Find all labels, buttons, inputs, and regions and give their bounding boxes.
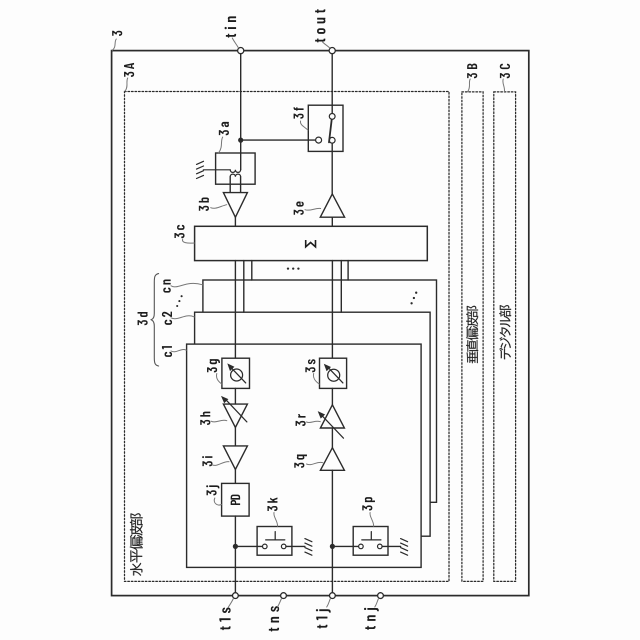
phase shifter 3g [222,358,250,388]
balun 3a secondary coil [230,174,240,177]
wire 3h to 3i [234,428,236,446]
wire 3q to terminal t1j [331,470,333,592]
label 3a [219,122,229,135]
terminal tin [238,48,244,54]
leader for label 3c [182,239,194,243]
variable amplifier 3h [223,404,247,427]
leader for label 3 [112,39,116,50]
label suichoku-henpa-bu (vertical Japanese text) [466,306,478,363]
label 3r [296,414,306,426]
terminal tout [329,48,335,54]
terminal tnj [378,593,384,599]
switch box 3f [308,105,343,151]
variable amplifier 3r (rx, points up) [320,405,344,428]
label tin [225,16,237,37]
label 3e [294,202,304,215]
wire 3i to 3j [234,469,236,483]
label t1s [219,607,230,630]
leader for label 3A [125,78,128,91]
leader for label 3s [313,374,319,385]
label 3i [202,456,212,466]
leader for label tns [277,599,281,608]
leader for label 3j [214,498,221,505]
label 3 [112,31,122,36]
leader for label 3g [217,374,222,385]
leader for label t1s [228,599,233,608]
leader for label 3f [300,121,307,130]
amplifier 3q (rx, points up) [320,448,344,471]
outer block box 3 [112,51,529,596]
sub-circuit box c1 (front card) [187,344,422,567]
label 3b [199,197,209,210]
wire 3r to 3q [331,428,333,448]
sub-circuit box cn (back card) [203,280,437,502]
terminal t1s [233,593,239,599]
label 3f [294,107,304,118]
sigma symbol [306,240,316,247]
label 3j [206,485,219,495]
label 3B [467,64,477,79]
leader for label 3q [307,462,323,464]
leader for label cn [171,283,203,286]
label tns [269,606,279,631]
label 3c [174,225,184,238]
ground for switch 3k [305,539,312,556]
leader for label c1 [171,350,186,352]
label 3C [500,64,510,79]
label cn [163,280,171,293]
dashed box 3C (digital section) [494,92,516,582]
label dejitaru-bu (vertical Japanese text) [499,305,511,359]
terminal tns [281,593,287,599]
combiner box 3c with sigma [195,226,428,260]
amplifier 3b (triangle, tx into sigma) [223,193,247,218]
junction node on tin line [238,138,243,143]
leader for label 3e [305,208,321,210]
leader for label tout [323,42,330,48]
leader for label 3C [503,79,505,92]
bus wires sigma to c1/c2/cn (right group) [332,261,348,359]
label 3p [362,497,375,510]
leader for label 3b [211,205,227,209]
label 3k [267,498,277,512]
wire 3b to sigma [234,217,236,226]
leader for label tin [232,38,238,48]
wire 3e to sigma [331,217,333,226]
brace for group 3d [151,274,158,366]
wire 3j to terminal t1s [234,516,236,593]
amplifier 3i [223,446,247,470]
leader for label t1j [327,599,331,608]
ground for switch 3p [401,539,408,556]
wire tout vertical (upper) [331,54,333,114]
label 3A [124,63,134,77]
leader for label 3p [370,513,374,527]
leader for label 3a [219,137,223,153]
amplifier 3e (triangle, sigma to tout) [320,194,344,217]
switch 3f contacts and arm [316,137,322,143]
label c1 [162,346,172,357]
dashed box 3A (horizontal polarization section) [125,92,450,582]
label 3q [294,455,307,468]
ellipsis dots between cn and c2 labels [176,295,183,307]
ellipsis dots more cards (right side) [410,292,417,305]
wire 3s to 3r [331,388,333,404]
balun box 3a [216,153,256,184]
dashed box 3B (vertical polarization section) [462,92,483,582]
label tout [315,9,325,42]
leader for label tnj [375,599,379,608]
label 3g [207,359,220,372]
balun 3a primary coil [230,170,240,173]
junction node left chain [233,544,238,549]
balun 3a secondary leads [230,177,240,193]
switch 3p [332,545,358,547]
label suihei-henpa-bu (vertical Japanese text) [130,513,143,575]
label 3s [305,359,315,372]
leader for label 3i [212,462,229,466]
junction node right chain [330,544,335,549]
leader for label 3k [274,513,278,527]
switch 3k [235,545,262,547]
sub-circuit box c2 (middle card) [195,312,431,536]
label t1j [316,609,331,628]
ellipsis dots between bus groups [287,267,300,269]
wire 3g to 3h [234,388,236,404]
leader for label 3h [211,420,227,422]
leader for label 3B [468,79,471,92]
label c2 [162,312,172,325]
ground for balun 3a [197,161,231,178]
label 3d [138,312,148,325]
wire 3f to amplifier 3e [331,143,333,194]
label 3h [200,412,210,425]
phase shifter 3s [320,358,347,388]
label tnj [364,608,379,630]
leader for label 3r [307,421,321,422]
power detector 3j (PD box) [222,483,250,516]
wire tin vertical [240,54,242,170]
leader for label c2 [171,316,194,319]
terminal t1j [330,593,336,599]
bus wires sigma to c1/c2/cn (left group) [235,261,251,359]
wire junction to 3f switch [241,139,316,141]
